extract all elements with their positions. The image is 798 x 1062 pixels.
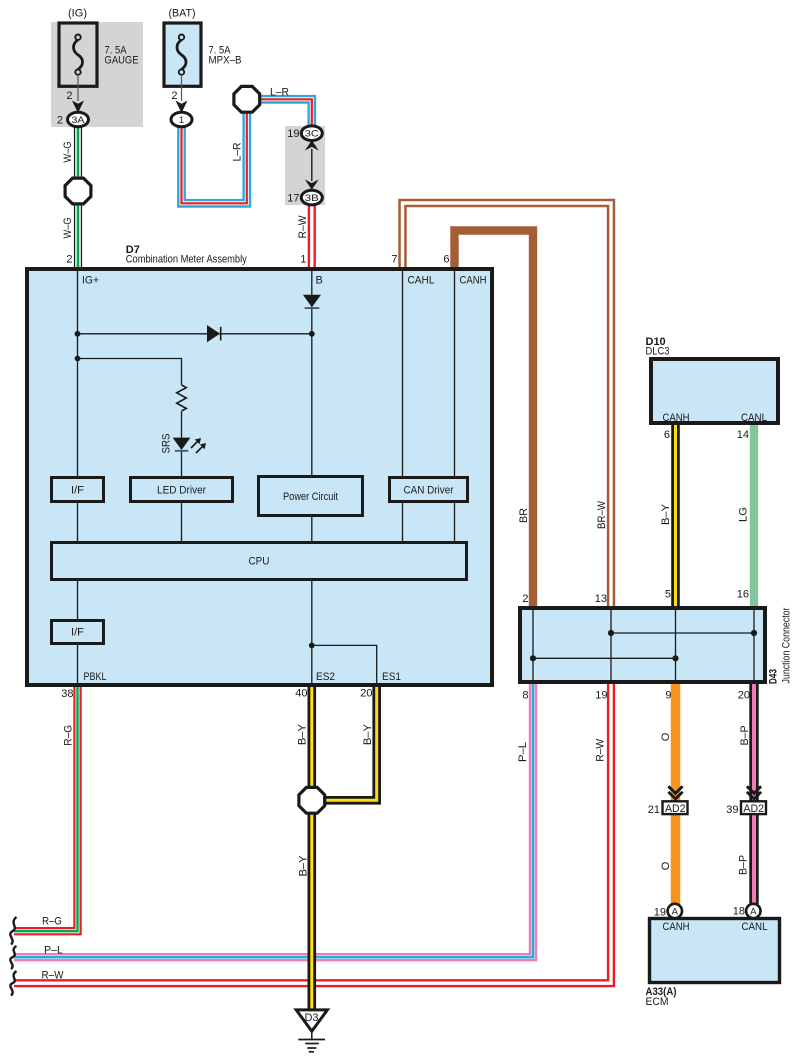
svg-text:MPX–B: MPX–B bbox=[209, 55, 242, 67]
svg-text:LED Driver: LED Driver bbox=[157, 485, 206, 497]
connector 3C oval bbox=[301, 126, 322, 141]
wire W-G from connector 3A to meter pin 2 bbox=[74, 126, 82, 268]
svg-text:CAN Driver: CAN Driver bbox=[404, 485, 454, 497]
svg-text:CPU: CPU bbox=[249, 556, 270, 568]
wire B column bbox=[311, 271, 313, 475]
wire IG+ column bbox=[77, 271, 79, 476]
junction dot ES2/ES1 branch bbox=[309, 643, 315, 649]
svg-text:19: 19 bbox=[654, 907, 666, 919]
svg-text:IG+: IG+ bbox=[82, 275, 99, 287]
junction connector D43 box bbox=[520, 608, 765, 682]
junction connector internal wiring bbox=[533, 610, 754, 680]
svg-text:3B: 3B bbox=[305, 193, 319, 204]
wire CAHL below CAN Driver bbox=[402, 503, 404, 541]
svg-text:P–L: P–L bbox=[517, 742, 529, 762]
svg-text:(BAT): (BAT) bbox=[169, 8, 196, 20]
wire pin2-pin8 column bbox=[532, 610, 534, 680]
connector A circle on O wire (ECM pin 19) bbox=[668, 904, 682, 918]
svg-text:5: 5 bbox=[665, 589, 671, 601]
wire BR from meter pin 6 to junction connector pin 2 bbox=[455, 231, 534, 609]
svg-text:GAUGE: GAUGE bbox=[105, 55, 139, 67]
svg-text:O: O bbox=[660, 732, 672, 741]
DLC3 D10 box bbox=[651, 359, 778, 423]
wire bus CANH side bbox=[611, 632, 754, 634]
junction dot pin16 bus bbox=[751, 630, 757, 636]
svg-text:DLC3: DLC3 bbox=[646, 346, 670, 358]
terminal arrow pointing up to 3C bbox=[305, 140, 319, 150]
svg-text:2: 2 bbox=[66, 90, 72, 102]
ground stem and bars bbox=[298, 1033, 325, 1052]
CAN Driver box bbox=[390, 478, 468, 502]
svg-text:7: 7 bbox=[391, 254, 397, 266]
svg-text:L–R: L–R bbox=[270, 87, 289, 99]
male terminal arrow below MPX-B fuse bbox=[176, 101, 188, 114]
connector A circle on B-P wire (ECM pin 18) bbox=[746, 904, 760, 918]
fuse box MPX-B (BAT) bbox=[164, 23, 201, 86]
svg-text:CANH: CANH bbox=[663, 921, 690, 933]
svg-text:B–P: B–P bbox=[738, 855, 750, 875]
wire B-P from junction connector pin 20 to ECM pin 18 bbox=[749, 682, 758, 904]
wire CANH column bbox=[454, 271, 456, 476]
svg-text:19: 19 bbox=[287, 128, 299, 140]
junction dot pin13 bus bbox=[608, 630, 614, 636]
svg-text:B: B bbox=[316, 275, 323, 287]
svg-text:A: A bbox=[672, 907, 679, 918]
svg-text:AD2: AD2 bbox=[743, 803, 764, 815]
wire I/F 2 to pin 38 bbox=[77, 645, 79, 685]
svg-text:CANH: CANH bbox=[460, 275, 487, 287]
wire B-Y from meter pin 40 (ES2) to ground D3 bbox=[307, 685, 316, 1009]
svg-text:A: A bbox=[750, 907, 757, 918]
octagon joint on B-Y wires bbox=[299, 787, 325, 813]
svg-text:(IG): (IG) bbox=[68, 8, 87, 20]
svg-text:20: 20 bbox=[360, 688, 372, 700]
shield chevrons on B-P wire bbox=[747, 786, 761, 799]
svg-text:8: 8 bbox=[522, 690, 528, 702]
svg-text:BR: BR bbox=[518, 508, 530, 523]
wire branch to resistor bbox=[78, 359, 182, 386]
junction dot pin5 bus bbox=[672, 655, 678, 661]
wire L-R from connector 1 to octagon J/C bbox=[182, 110, 247, 203]
svg-text:Combination Meter Assembly: Combination Meter Assembly bbox=[126, 254, 247, 266]
svg-text:R–W: R–W bbox=[42, 970, 65, 982]
junction dot on IG+ at diode branch bbox=[75, 331, 81, 337]
svg-text:CAHL: CAHL bbox=[408, 275, 435, 287]
svg-text:O: O bbox=[660, 861, 672, 870]
wire branch to diode toward B bbox=[78, 333, 312, 335]
diode on IG+ to B branch (pointing right) bbox=[207, 325, 221, 342]
wire L-R from octagon to connector 3C bbox=[252, 99, 312, 128]
wire B-Y from meter pin 20 (ES1) to octagon joint bbox=[323, 685, 377, 800]
terminal arrow pointing down to 3B bbox=[305, 179, 319, 189]
svg-text:39: 39 bbox=[726, 804, 738, 816]
svg-text:1: 1 bbox=[179, 115, 184, 126]
fuse MPX-B symbol bbox=[177, 35, 186, 102]
junction dot on B column bbox=[309, 331, 315, 337]
link line 3C-3B bbox=[311, 149, 313, 181]
svg-text:SRS: SRS bbox=[161, 434, 173, 454]
svg-text:B–Y: B–Y bbox=[660, 503, 672, 525]
svg-text:R–G: R–G bbox=[42, 916, 62, 928]
svg-text:Power Circuit: Power Circuit bbox=[283, 491, 338, 503]
svg-text:3A: 3A bbox=[72, 115, 86, 126]
wire R-W from junction connector pin 19 to page edge bbox=[14, 682, 611, 983]
ECM A33 box bbox=[650, 919, 780, 983]
svg-text:I/F: I/F bbox=[71, 627, 84, 639]
shaded area around IG fuse bbox=[51, 22, 143, 127]
svg-text:18: 18 bbox=[733, 906, 745, 918]
svg-text:R–G: R–G bbox=[63, 725, 75, 746]
svg-text:6: 6 bbox=[664, 429, 670, 441]
shield chevrons on O wire bbox=[668, 786, 682, 799]
svg-text:B–Y: B–Y bbox=[362, 723, 374, 745]
svg-text:38: 38 bbox=[61, 688, 73, 700]
LED Driver box bbox=[131, 478, 233, 502]
svg-text:2: 2 bbox=[57, 115, 63, 127]
svg-text:R–W: R–W bbox=[297, 215, 309, 239]
svg-text:40: 40 bbox=[295, 688, 307, 700]
wire CAHL column bbox=[402, 271, 404, 476]
page continuation squiggle at P-L bbox=[10, 946, 16, 969]
I/F box upper bbox=[52, 478, 104, 502]
svg-text:1: 1 bbox=[300, 254, 306, 266]
svg-text:P–L: P–L bbox=[44, 945, 63, 957]
svg-text:3C: 3C bbox=[305, 129, 319, 140]
octagon joint on L-R wire bbox=[234, 86, 260, 112]
wire CPU to I/F 2 bbox=[77, 581, 79, 619]
svg-text:ES1: ES1 bbox=[382, 671, 401, 683]
svg-text:19: 19 bbox=[595, 690, 607, 702]
wire B-Y from DLC3 CANH pin 6 to junction connector pin 5 bbox=[671, 423, 680, 608]
shaded area around connectors 3C/3B bbox=[285, 126, 325, 205]
svg-text:R–W: R–W bbox=[595, 738, 607, 762]
svg-text:2: 2 bbox=[171, 90, 177, 102]
svg-text:CANL: CANL bbox=[741, 412, 767, 424]
fuse box GAUGE (IG) bbox=[59, 23, 97, 86]
wire pin16-pin20 column bbox=[753, 610, 755, 680]
svg-text:2: 2 bbox=[66, 254, 72, 266]
wire R-W from connector 3B to meter pin 1 bbox=[308, 204, 316, 268]
svg-text:D43: D43 bbox=[768, 669, 780, 684]
combination meter assembly D7 box bbox=[27, 269, 492, 685]
svg-text:Junction Connector: Junction Connector bbox=[781, 607, 793, 683]
male terminal arrow below GAUGE fuse bbox=[72, 101, 84, 114]
svg-text:W–G: W–G bbox=[62, 142, 74, 163]
connector 3A oval bbox=[68, 112, 89, 127]
svg-text:LG: LG bbox=[738, 507, 750, 522]
svg-text:W–G: W–G bbox=[62, 218, 74, 239]
junction dot pin2 bus bbox=[530, 655, 536, 661]
svg-text:CANL: CANL bbox=[742, 921, 768, 933]
svg-text:BR–W: BR–W bbox=[596, 500, 608, 529]
wire R-G from meter pin 38 to page edge bbox=[14, 685, 78, 931]
svg-text:AD2: AD2 bbox=[665, 803, 686, 815]
octagon joint on W-G wire bbox=[65, 178, 91, 204]
wire bus CANL side bbox=[533, 657, 676, 659]
wire LED to LED Driver bbox=[181, 451, 183, 477]
wire pin13-pin19 column bbox=[610, 610, 612, 680]
CPU box bbox=[52, 543, 467, 580]
svg-text:9: 9 bbox=[665, 690, 671, 702]
connector AD2 box on O wire bbox=[663, 801, 688, 814]
svg-text:13: 13 bbox=[595, 593, 607, 605]
svg-text:B–Y: B–Y bbox=[297, 723, 309, 745]
wire LED Driver to CPU bbox=[181, 503, 183, 541]
svg-text:L–R: L–R bbox=[232, 142, 244, 161]
svg-text:D3: D3 bbox=[304, 1012, 318, 1024]
wire BR-W from meter pin 7 to junction connector pin 13 bbox=[403, 203, 612, 608]
wire O from junction connector pin 9 to ECM pin 19 bbox=[671, 682, 681, 905]
junction dot on IG+ at resistor branch bbox=[75, 356, 81, 362]
wire IG+ below I/F to CPU bbox=[77, 503, 79, 541]
svg-text:14: 14 bbox=[737, 429, 749, 441]
svg-text:2: 2 bbox=[522, 593, 528, 605]
svg-text:PBKL: PBKL bbox=[84, 671, 107, 683]
svg-text:B–Y: B–Y bbox=[298, 855, 310, 877]
svg-text:B–P: B–P bbox=[739, 726, 751, 746]
wire Power Circuit to CPU bbox=[311, 517, 313, 541]
meter internal wiring bbox=[78, 271, 455, 685]
wire pin5-pin9 column bbox=[675, 610, 677, 680]
ground D3 triangle bbox=[296, 1010, 327, 1031]
svg-text:ECM: ECM bbox=[646, 996, 669, 1008]
wire resistor to LED bbox=[181, 412, 183, 439]
wire CANH below CAN Driver bbox=[454, 503, 456, 541]
LED SRS (diode + arrows) bbox=[173, 438, 206, 453]
page continuation squiggle at R-W bbox=[10, 971, 16, 996]
svg-text:17: 17 bbox=[287, 193, 299, 205]
connector AD2 box on B-P wire bbox=[741, 801, 766, 814]
connector 3B oval bbox=[301, 190, 322, 205]
wire LG from DLC3 CANL pin 14 to junction connector pin 16 bbox=[750, 423, 758, 608]
svg-text:16: 16 bbox=[737, 589, 749, 601]
diode D (B column, pointing down) bbox=[303, 295, 321, 308]
I/F box lower bbox=[52, 621, 104, 644]
svg-text:CANH: CANH bbox=[663, 412, 690, 424]
svg-text:ES2: ES2 bbox=[316, 671, 335, 683]
svg-text:20: 20 bbox=[738, 690, 750, 702]
wire P-L from junction connector pin 8 to page edge bbox=[14, 682, 533, 957]
fuse GAUGE symbol bbox=[73, 35, 82, 102]
resistor inside meter bbox=[177, 385, 187, 411]
svg-text:6: 6 bbox=[443, 254, 449, 266]
svg-text:21: 21 bbox=[648, 804, 660, 816]
wire CPU to ES2 pin 40 bbox=[311, 581, 313, 685]
wire branch ES1 to pin 20 bbox=[312, 645, 377, 685]
svg-text:I/F: I/F bbox=[71, 485, 84, 497]
connector 1 oval bbox=[171, 112, 192, 127]
Power Circuit box bbox=[259, 477, 363, 516]
page continuation squiggle at R-G bbox=[10, 917, 16, 945]
